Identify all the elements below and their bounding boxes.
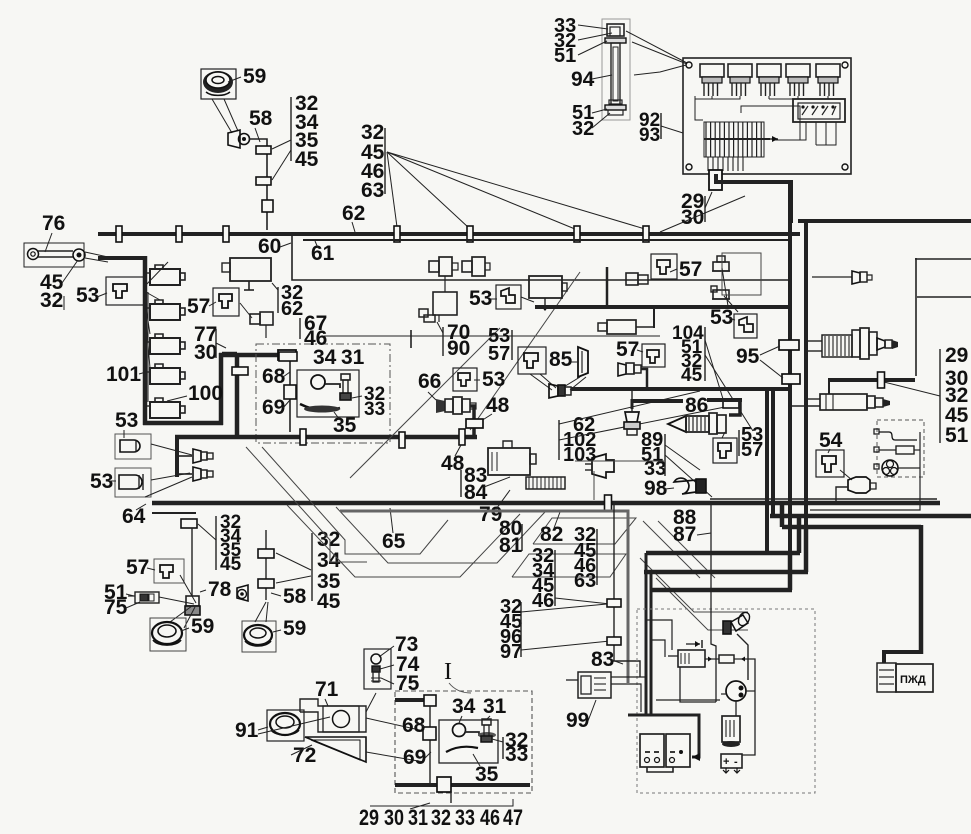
leader 103 diag — [559, 404, 740, 440]
svg-text:69: 69 — [262, 396, 285, 419]
thick 86 drop — [729, 400, 740, 415]
svg-text:68: 68 — [262, 365, 286, 388]
leader 70-90 — [437, 322, 443, 333]
plug box 53-57 pair — [453, 368, 477, 391]
main bus wire 62 — [98, 232, 800, 236]
horn bracket mid — [585, 454, 614, 478]
leader 79 — [494, 490, 510, 512]
sensor 54 — [848, 477, 876, 493]
leader 101 — [139, 372, 146, 374]
wire 61 — [303, 239, 788, 241]
bracket colE — [520, 602, 522, 657]
leader 32b — [592, 113, 610, 128]
horn unit 5 (101 group) — [145, 398, 185, 418]
vert x829 drop — [828, 378, 830, 394]
leader 66 — [428, 392, 436, 400]
leader 74 — [380, 665, 394, 669]
wire below boxI — [450, 792, 452, 803]
wires inside cluster b — [651, 640, 665, 657]
leader colE — [521, 641, 610, 650]
leader 31 boxI — [487, 716, 490, 719]
tick x614 a — [607, 599, 621, 607]
wire relayA down — [680, 667, 716, 702]
tick on wire 46 — [410, 330, 412, 348]
vert x808 link — [804, 527, 809, 572]
leader 60 — [280, 243, 291, 247]
horn unit 3 (101 group) — [145, 334, 185, 354]
leader 54 — [828, 449, 830, 453]
thick y527 — [782, 525, 921, 530]
svg-text:53: 53 — [710, 306, 733, 329]
leader 32t — [578, 33, 612, 40]
relay 4 on panel — [786, 64, 810, 96]
leader colE b — [521, 604, 607, 612]
harness outline C — [287, 505, 520, 577]
svg-text:53: 53 — [76, 284, 99, 307]
leader grommet to lamp b — [224, 99, 238, 131]
bus tick 7 — [643, 226, 649, 242]
leader 53 upper-left — [97, 293, 107, 297]
triangle 72 — [305, 737, 366, 762]
leader spark b — [724, 296, 738, 312]
leader 71-72 fan a — [366, 693, 376, 712]
connector 66 right — [453, 397, 476, 414]
svg-text:48: 48 — [486, 394, 510, 417]
relay 99 — [566, 672, 611, 698]
bracket 70-90 — [442, 327, 444, 356]
connector 64 stub — [181, 519, 197, 528]
leader 72 — [291, 745, 312, 755]
wire x614 — [614, 505, 640, 677]
thick y516 — [770, 514, 971, 519]
svg-text:35: 35 — [475, 763, 499, 786]
svg-text:72: 72 — [293, 744, 316, 767]
vert x655 to y307 — [653, 307, 655, 328]
leader I — [449, 683, 471, 693]
leader 57 topright — [670, 269, 677, 272]
leader fan B3 — [387, 152, 575, 229]
bracket column B — [384, 128, 386, 194]
connector top box I — [424, 695, 436, 706]
leader 64 — [136, 504, 146, 510]
box 73-75 — [364, 649, 391, 689]
leader 71-72 fan b — [366, 718, 424, 731]
svg-text:51: 51 — [554, 45, 576, 67]
thick y553 — [646, 551, 800, 556]
leader 53 center — [491, 298, 497, 300]
leader colF — [884, 382, 940, 396]
leader 71 — [325, 699, 328, 706]
fuel gauge sender circle — [882, 460, 920, 476]
relay 1 on panel — [700, 64, 724, 96]
fan 78 a — [180, 575, 196, 603]
wire 46 to right — [324, 335, 660, 337]
thick y572 — [644, 570, 808, 575]
leader 57 mid — [637, 350, 643, 352]
flashlight icon — [723, 610, 752, 634]
antenna 94 top connector — [605, 24, 626, 43]
relay box mid (49) — [529, 276, 567, 311]
svg-text:33: 33 — [364, 399, 385, 420]
bracket 83-84 — [460, 470, 462, 497]
long vert x806 — [804, 223, 808, 572]
svg-text:63: 63 — [361, 179, 384, 202]
svg-text:61: 61 — [311, 242, 335, 265]
bracket 77-30 — [215, 329, 217, 358]
leader 53 pair — [474, 379, 480, 381]
leader spark a — [722, 268, 728, 306]
svg-text:57: 57 — [187, 295, 210, 318]
svg-text:45: 45 — [220, 554, 242, 575]
svg-text:85: 85 — [549, 348, 573, 371]
leader 62 bus — [352, 222, 355, 232]
svg-text:69: 69 — [403, 746, 426, 769]
leader colI b — [705, 355, 753, 431]
svg-text:53: 53 — [469, 287, 492, 310]
horn unit 4 (101 group) — [145, 364, 185, 384]
leader 71-72 fan c — [366, 752, 424, 762]
cab outline diagonal 2 — [470, 272, 580, 430]
panel screw tl — [686, 62, 692, 68]
svg-text:ПЖД: ПЖД — [900, 674, 926, 686]
bracket colC — [596, 529, 598, 585]
svg-text:-: - — [734, 756, 738, 768]
bolt 73-75 icon — [371, 654, 381, 682]
thick wire up to 68-wire — [219, 353, 224, 425]
panel screw br — [842, 164, 848, 170]
wire 78 vert — [191, 528, 193, 596]
leader 75b — [381, 678, 394, 684]
leader 76 — [45, 233, 52, 252]
harness outline D — [336, 507, 545, 563]
wire connA down — [444, 276, 446, 292]
svg-text:31: 31 — [483, 695, 507, 718]
leader fan B1 — [387, 152, 397, 227]
leader 95 a — [760, 346, 780, 355]
bracket 92-93 — [660, 113, 662, 139]
fan 85 a — [530, 374, 552, 390]
bus tick 1 — [116, 226, 122, 242]
mid bus tick 2 — [399, 432, 405, 448]
plug box 85-left — [518, 347, 546, 374]
fan 78 b — [159, 597, 194, 604]
harness chevron right c — [640, 558, 748, 612]
connector 95 b — [782, 374, 800, 384]
thick bat feed — [628, 715, 699, 757]
svg-text:71: 71 — [315, 678, 339, 701]
vert x646 down — [645, 553, 648, 716]
plug box 53-57 right — [713, 438, 737, 463]
bracket column A — [290, 97, 292, 161]
kb oval mid — [304, 406, 340, 413]
grommet 59 lower-left — [152, 622, 182, 645]
wiper connector stack — [852, 328, 898, 359]
harness parallelogram lower — [512, 554, 626, 577]
connector 58l a — [258, 549, 274, 558]
grommet 59 lr box — [242, 621, 276, 652]
leader 53a — [123, 430, 125, 438]
svg-text:90: 90 — [447, 337, 470, 360]
plug connector upper — [712, 256, 730, 271]
thick bus right y221 — [798, 219, 971, 223]
connector block a on wire 58 — [256, 146, 271, 154]
connector 70-90 hang — [419, 309, 435, 322]
connector 68-end block — [278, 350, 296, 360]
left vert x177 — [175, 435, 179, 477]
leader 29-30 long — [660, 196, 745, 232]
leader 87 — [697, 533, 711, 535]
key symbol boxI — [453, 724, 497, 739]
wire 57conn to down — [240, 303, 252, 318]
wires 99 to box — [611, 676, 646, 678]
cable 35 boxI — [446, 747, 478, 752]
svg-text:29: 29 — [359, 805, 379, 830]
svg-text:46: 46 — [532, 590, 554, 612]
thick elbow y307 — [535, 305, 790, 309]
wires tank unit — [806, 398, 820, 400]
svg-text:63: 63 — [574, 570, 596, 592]
pzd box — [896, 664, 933, 692]
wire 64 stub — [152, 512, 196, 514]
svg-text:66: 66 — [418, 370, 441, 393]
column H bracket — [311, 533, 313, 601]
relay 70-90 box — [433, 292, 457, 322]
thick y380 right — [829, 378, 915, 382]
thick wire x237 vert — [235, 354, 240, 437]
wiper motor hatched — [822, 335, 852, 357]
svg-text:30: 30 — [681, 206, 704, 229]
leader lampb to bullets a — [151, 473, 190, 480]
bracket 53-57 — [511, 330, 513, 360]
leader 102 diag — [559, 391, 700, 424]
horn unit 2 (101 group) — [145, 300, 185, 320]
panel internal wiring — [695, 96, 828, 140]
grommet 91 — [270, 713, 300, 735]
svg-text:34: 34 — [317, 549, 341, 572]
leader row diag — [410, 803, 430, 809]
leader 51t — [578, 41, 607, 55]
bracket 53-57 r — [738, 430, 740, 456]
connector pair B under bus — [462, 257, 490, 276]
panel harness connector (hatched) — [704, 122, 778, 171]
svg-text:58: 58 — [283, 585, 307, 608]
svg-text:32: 32 — [572, 118, 594, 140]
pzd wire elbow — [884, 652, 921, 663]
wire right loop br — [742, 659, 755, 755]
leader 53 fan c — [144, 295, 150, 334]
leader 53 fan e — [147, 292, 149, 402]
leader 34 boxI — [459, 716, 462, 723]
fan 78 c — [170, 606, 192, 622]
leader 99 — [588, 700, 596, 721]
thick y404 left seg — [631, 399, 683, 403]
svg-text:62: 62 — [342, 202, 365, 225]
leader colA to conn a — [272, 140, 291, 149]
bus tick 3 — [223, 226, 229, 242]
svg-text:35: 35 — [333, 414, 357, 437]
connector block b on wire 58 — [256, 177, 271, 185]
vert x770 upper — [765, 391, 769, 553]
lamp box 53 a — [115, 434, 151, 459]
wires inside cluster c — [656, 699, 720, 701]
leader colD — [555, 598, 610, 604]
leader 35 boxI — [473, 754, 480, 766]
svg-text:99: 99 — [566, 709, 589, 732]
fan colH a — [276, 553, 311, 570]
fan 85 b — [540, 374, 556, 388]
wire x711 down — [711, 505, 716, 702]
svg-text:57: 57 — [616, 338, 639, 361]
svg-text:60: 60 — [258, 235, 281, 258]
fan 85 d — [570, 377, 586, 390]
svg-text:57: 57 — [126, 556, 149, 579]
panel small relay box — [775, 99, 845, 145]
thin wire y277 — [812, 276, 852, 278]
grommet 91 box — [267, 710, 304, 741]
svg-text:65: 65 — [382, 530, 406, 553]
connector boxI bus — [437, 777, 451, 792]
vert x607 medium — [606, 267, 609, 307]
fuse 51-75 — [128, 592, 159, 603]
harness chevron right a — [643, 521, 700, 578]
vert x651 down — [650, 572, 653, 716]
bolt symbol 31 — [340, 374, 351, 400]
svg-text:53: 53 — [482, 368, 505, 391]
wire panel to right bus — [716, 174, 793, 182]
leader grommet to lamp a — [212, 99, 232, 133]
connector top x290 — [279, 352, 297, 361]
panel bottom wire connector — [709, 170, 722, 190]
relay 5 on panel — [816, 64, 840, 96]
antenna 94 mast — [609, 43, 622, 105]
svg-text:78: 78 — [208, 578, 232, 601]
leader 68 mid — [283, 372, 290, 377]
branch to bullet 1 — [177, 455, 192, 457]
relay 83-84 big — [488, 441, 536, 475]
starter relay br — [722, 716, 740, 747]
relay 60 box — [222, 258, 271, 290]
bolt symbol boxI — [481, 719, 492, 742]
antenna 94 bottom connector — [605, 105, 626, 115]
bus tick 2 — [176, 226, 182, 242]
bracket 80-81 — [521, 524, 523, 551]
leader 32-62 — [272, 283, 278, 290]
cab outline diagonal 1 — [350, 328, 500, 478]
wire sensor down — [836, 487, 848, 501]
lamp 58 — [228, 130, 250, 148]
grommet 59 — [203, 71, 233, 95]
bus tick 6 — [574, 226, 580, 242]
vert x782 link — [780, 503, 785, 527]
svg-text:101: 101 — [106, 363, 141, 386]
fuel gauge right line — [810, 432, 920, 510]
svg-text:84: 84 — [464, 481, 488, 504]
wire y499 long — [710, 498, 937, 500]
leader 33 — [578, 25, 608, 29]
leader 61 — [315, 241, 318, 248]
svg-text:58: 58 — [249, 107, 273, 130]
svg-text:57: 57 — [679, 258, 702, 281]
battery box 2 — [666, 734, 690, 767]
svg-text:45: 45 — [317, 590, 341, 613]
grommet 59 lr — [244, 625, 272, 646]
leader 85 — [571, 361, 578, 363]
plug box 53 right — [734, 314, 757, 338]
pzd connector — [877, 663, 896, 692]
box 71 — [300, 699, 366, 732]
wires inside cluster a — [646, 620, 672, 650]
leader 58 — [255, 128, 260, 142]
inner box I — [439, 720, 498, 763]
harness parallelogram upper — [533, 518, 636, 544]
svg-text:32: 32 — [431, 805, 451, 830]
leader 83 low — [612, 660, 623, 664]
bracket colF — [939, 349, 941, 443]
tick y380 — [878, 372, 885, 388]
inner switch box left — [297, 370, 359, 417]
harness outline B — [262, 447, 448, 554]
panel screw bl — [686, 164, 692, 170]
leader 58 lower — [271, 593, 281, 596]
battery link wire — [647, 767, 673, 772]
svg-text:45: 45 — [295, 148, 319, 171]
wire circle down — [735, 701, 737, 716]
harness chevron right b — [656, 578, 748, 630]
svg-text:29: 29 — [945, 344, 968, 367]
bullet 85 — [549, 384, 571, 398]
hanging bullet mid — [624, 412, 640, 435]
leader colA to conn b — [272, 150, 291, 180]
bus tick 4 — [394, 226, 400, 242]
leader 91 — [258, 727, 268, 730]
arrow icon above relay A — [686, 640, 702, 648]
svg-text:33: 33 — [455, 805, 475, 830]
mid bus tick 1 — [300, 429, 306, 445]
bracket 32-62 — [277, 287, 279, 313]
svg-text:62: 62 — [281, 298, 303, 320]
leader 54 to sensor — [840, 470, 852, 480]
connector 57-left pair — [250, 312, 273, 325]
bus tick 5 — [467, 226, 473, 242]
svg-text:30: 30 — [384, 805, 404, 830]
leader 35 mid — [334, 412, 340, 420]
leader colG — [198, 524, 216, 540]
svg-text:75: 75 — [104, 596, 128, 619]
starter 86 — [668, 413, 726, 434]
thin frame horns b — [593, 471, 595, 500]
thin box around plugs — [722, 253, 761, 295]
leader 29-30 to conn — [705, 192, 712, 208]
thick wire 68 horiz — [219, 353, 280, 358]
connector on x790 y399 — [723, 399, 739, 408]
leader 51-75 — [126, 594, 134, 596]
svg-text:83: 83 — [591, 648, 614, 671]
right edge vertical — [915, 258, 917, 376]
svg-text:81: 81 — [499, 534, 523, 557]
connector block c on wire 58 — [262, 200, 273, 212]
thick wire bottom horiz — [143, 421, 223, 426]
tank unit cylinder — [820, 394, 890, 410]
svg-text:51: 51 — [945, 424, 969, 447]
leader colI a — [705, 340, 723, 399]
thin frame horns a — [575, 460, 664, 462]
leader 83-84 — [484, 477, 510, 487]
thick bus boxI — [395, 783, 530, 787]
vert x799 link — [797, 516, 802, 553]
leader 77-30 — [216, 343, 226, 348]
horn 98 — [674, 478, 706, 494]
thick wire left horiz — [98, 256, 146, 260]
